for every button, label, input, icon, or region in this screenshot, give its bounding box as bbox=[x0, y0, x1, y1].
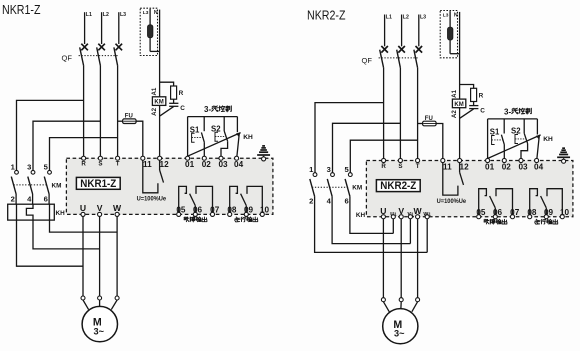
svg-text:L3: L3 bbox=[120, 12, 126, 18]
wire V to motor bbox=[400, 219, 402, 298]
svg-text:09: 09 bbox=[544, 208, 554, 217]
wire fuse to N line bbox=[150, 50, 160, 52]
svg-text:6: 6 bbox=[44, 194, 48, 203]
wire fuse to N line bbox=[450, 53, 460, 55]
thermal contact KH (control) bbox=[236, 117, 238, 133]
svg-text:04: 04 bbox=[234, 160, 244, 169]
label fault output bbox=[184, 217, 189, 222]
wire KM coil A2 to terminal 12 bbox=[159, 105, 161, 158]
terminal 07 bbox=[510, 215, 514, 219]
svg-text:10: 10 bbox=[560, 208, 570, 217]
svg-text:A2: A2 bbox=[451, 110, 458, 118]
svg-text:KM: KM bbox=[154, 100, 163, 106]
terminal PE bbox=[262, 157, 266, 161]
relay label box NKR1-Z bbox=[76, 177, 120, 189]
wire QF pole 2 to terminal S bbox=[99, 66, 101, 159]
svg-text:FU: FU bbox=[125, 114, 133, 120]
svg-text:V: V bbox=[398, 206, 404, 216]
terminal W bbox=[115, 212, 119, 216]
svg-text:06: 06 bbox=[493, 208, 503, 217]
wire C to A2 node bbox=[160, 107, 174, 116]
svg-text:L1: L1 bbox=[86, 12, 92, 18]
wire control to KM coil A1 bbox=[159, 51, 161, 96]
terminal 01 bbox=[186, 156, 190, 160]
svg-text:FU: FU bbox=[425, 116, 433, 122]
circuit breaker QF (panel 2) bbox=[362, 46, 423, 68]
wire branch phase 2 to KM pole bbox=[333, 123, 401, 172]
svg-text:u1: u1 bbox=[390, 211, 397, 218]
svg-text:3: 3 bbox=[327, 165, 331, 174]
wire RC branch bbox=[160, 82, 174, 86]
terminal PE bbox=[562, 159, 566, 163]
terminal 06 bbox=[193, 212, 197, 216]
svg-text:R: R bbox=[179, 90, 184, 97]
terminal 08 bbox=[528, 215, 532, 219]
resistor R bbox=[471, 88, 477, 101]
svg-text:01: 01 bbox=[185, 160, 195, 169]
wire control to KM coil A1 bbox=[459, 54, 461, 99]
relay unit NKR2-Z (dashed enclosure) bbox=[366, 161, 573, 217]
svg-text:3-: 3- bbox=[504, 107, 511, 116]
terminal 08 bbox=[228, 212, 232, 216]
wire KM pole to v1 bbox=[332, 196, 410, 243]
svg-text:06: 06 bbox=[193, 206, 203, 215]
terminal R bbox=[382, 158, 386, 162]
svg-text:U: U bbox=[80, 203, 86, 213]
label fault output bbox=[484, 219, 489, 224]
svg-text:L3: L3 bbox=[143, 10, 149, 16]
svg-text:R: R bbox=[479, 93, 484, 100]
svg-text:3~: 3~ bbox=[94, 326, 105, 336]
wire W to motor bbox=[116, 217, 118, 296]
terminal 04 bbox=[535, 158, 539, 162]
svg-text:10: 10 bbox=[260, 206, 270, 215]
terminal 09 bbox=[544, 215, 548, 219]
svg-text:L3: L3 bbox=[420, 15, 426, 21]
terminal V bbox=[399, 215, 403, 219]
terminal U bbox=[81, 212, 85, 216]
terminal R bbox=[82, 156, 86, 160]
svg-text:S: S bbox=[98, 161, 102, 168]
capacitor C bbox=[169, 102, 178, 104]
svg-text:03: 03 bbox=[218, 160, 228, 169]
resistor R bbox=[171, 86, 177, 99]
svg-text:w1: w1 bbox=[422, 211, 431, 218]
wire V to motor bbox=[99, 217, 101, 296]
wire branch phase 3 to KM pole bbox=[350, 140, 417, 172]
svg-text:L2: L2 bbox=[103, 12, 109, 18]
svg-text:N: N bbox=[454, 12, 458, 18]
terminal S bbox=[98, 156, 102, 160]
svg-text:U=100%Ue: U=100%Ue bbox=[437, 198, 467, 205]
svg-text:12: 12 bbox=[460, 163, 470, 172]
wire control bus bbox=[488, 118, 538, 120]
contactor coil KM (panel 1) bbox=[152, 97, 165, 106]
label run output bbox=[235, 217, 240, 222]
svg-text:C: C bbox=[480, 108, 485, 115]
svg-text:KH: KH bbox=[543, 136, 553, 143]
terminal 01 bbox=[486, 158, 490, 162]
svg-text:L3: L3 bbox=[443, 13, 449, 19]
terminal 03 bbox=[519, 158, 523, 162]
undervoltage contact U=100%Ue bbox=[443, 163, 458, 195]
phase line L2 (panel 2) bbox=[401, 15, 403, 47]
wire bus to terminal 01 bbox=[487, 119, 489, 161]
svg-text:A2: A2 bbox=[151, 107, 158, 115]
wire U to motor bbox=[82, 217, 84, 296]
svg-text:A1: A1 bbox=[451, 89, 458, 97]
control supply option box (dashed) bbox=[440, 11, 457, 58]
svg-text:08: 08 bbox=[527, 208, 537, 217]
svg-text:v1: v1 bbox=[407, 211, 414, 218]
motor M 3~ (panel 1) bbox=[82, 306, 117, 341]
wire KM coil A2 to terminal 12 bbox=[459, 108, 461, 161]
relay unit NKR1-Z (dashed enclosure) bbox=[66, 158, 273, 214]
svg-text:R: R bbox=[381, 163, 386, 170]
terminal 11 bbox=[141, 156, 145, 160]
wire N line bbox=[459, 12, 461, 54]
terminal T bbox=[416, 158, 420, 162]
wire W to motor bbox=[417, 219, 419, 298]
wire branch phase 2 to KM pole bbox=[33, 121, 100, 170]
svg-text:3: 3 bbox=[27, 163, 31, 172]
terminal 03 bbox=[219, 156, 223, 160]
wire branch phase 3 to KM pole bbox=[50, 138, 118, 171]
ground (protective earth) bbox=[557, 148, 570, 159]
wire FU to terminal 11 bbox=[136, 121, 143, 158]
svg-text:07: 07 bbox=[510, 208, 520, 217]
wire FU to terminal 11 bbox=[436, 124, 443, 161]
wire U to motor bbox=[382, 219, 384, 298]
svg-text:T: T bbox=[116, 161, 120, 168]
svg-text:09: 09 bbox=[244, 206, 254, 215]
terminal v1 bbox=[408, 215, 412, 219]
undervoltage contact U=100%Ue bbox=[143, 160, 158, 192]
terminal 02 bbox=[502, 158, 506, 162]
wire KM pole 2 to KH bbox=[15, 194, 17, 204]
fuse FU bbox=[123, 119, 137, 124]
wire KM pole to w1 bbox=[315, 196, 428, 252]
wire RC branch bbox=[460, 85, 474, 89]
wire v1 drop bbox=[409, 219, 411, 244]
terminal 04 bbox=[235, 156, 239, 160]
motor terminal V bbox=[399, 298, 403, 302]
svg-text:S: S bbox=[398, 163, 402, 170]
svg-text:01: 01 bbox=[485, 163, 495, 172]
svg-text:NKR1-Z: NKR1-Z bbox=[2, 2, 41, 17]
terminal 12 bbox=[158, 156, 162, 160]
svg-text:3-: 3- bbox=[204, 105, 211, 114]
terminal w1 bbox=[425, 215, 429, 219]
wire KM pole 4 to KH bbox=[32, 194, 34, 204]
terminal 06 bbox=[493, 215, 497, 219]
motor terminal U bbox=[81, 296, 85, 300]
terminal 05 bbox=[477, 215, 481, 219]
thermal overload relay KH bbox=[8, 204, 65, 220]
terminal S bbox=[398, 158, 402, 162]
svg-text:11: 11 bbox=[443, 163, 452, 172]
svg-text:V: V bbox=[97, 203, 103, 213]
svg-text:T: T bbox=[416, 163, 420, 170]
svg-text:KH: KH bbox=[243, 134, 253, 141]
wire C to A2 node bbox=[460, 109, 474, 118]
wire QF pole 3 to terminal T bbox=[117, 66, 119, 159]
control fuse (in dashed box) bbox=[449, 11, 451, 54]
wire QF pole 2 to terminal S bbox=[399, 68, 401, 161]
svg-text:11: 11 bbox=[143, 160, 152, 169]
fault output contact (05/06/07) bbox=[179, 186, 213, 212]
terminal 10 bbox=[560, 215, 564, 219]
svg-text:W: W bbox=[414, 206, 423, 216]
fault output contact (05/06/07) bbox=[479, 189, 513, 215]
ground (protective earth) bbox=[257, 146, 270, 157]
svg-text:02: 02 bbox=[502, 163, 512, 172]
svg-text:12: 12 bbox=[160, 160, 170, 169]
wire N line bbox=[159, 10, 161, 52]
terminal 09 bbox=[244, 212, 248, 216]
wire R to C bbox=[173, 99, 175, 103]
wire KH pole 4 to V line bbox=[33, 220, 100, 249]
phase line L1 (panel 2) bbox=[384, 15, 386, 47]
motor terminal U bbox=[381, 298, 385, 302]
wire w1 drop bbox=[426, 219, 428, 253]
terminal 12 bbox=[458, 158, 462, 162]
terminal 02 bbox=[202, 156, 206, 160]
terminal 11 bbox=[441, 158, 445, 162]
contactor KM main contacts (panel 1) bbox=[11, 163, 62, 204]
svg-text:NKR2-Z: NKR2-Z bbox=[380, 180, 416, 192]
wire QF pole 1 to terminal R bbox=[383, 68, 385, 161]
fuse FU bbox=[423, 121, 437, 126]
svg-text:KH: KH bbox=[56, 210, 66, 217]
svg-text:2: 2 bbox=[11, 194, 15, 203]
wire motor leads bbox=[383, 302, 389, 312]
svg-text:U: U bbox=[380, 206, 386, 216]
terminal 07 bbox=[210, 212, 214, 216]
svg-text:N: N bbox=[154, 10, 158, 16]
svg-text:KM: KM bbox=[52, 182, 62, 189]
capacitor C bbox=[469, 105, 478, 107]
svg-text:C: C bbox=[180, 105, 185, 112]
circuit breaker QF (panel 1) bbox=[62, 44, 123, 66]
wire KH pole 6 to W line bbox=[50, 220, 118, 232]
wire KM pole 6 to KH bbox=[48, 194, 50, 204]
contactor KM main contacts (panel 2) bbox=[309, 165, 362, 206]
wire branch phase 1 to KM pole bbox=[315, 103, 384, 173]
wire T phase to FU bbox=[418, 123, 423, 125]
motor terminal W bbox=[416, 298, 420, 302]
wire R to C bbox=[473, 102, 475, 106]
svg-text:02: 02 bbox=[202, 160, 212, 169]
contactor coil KM (panel 2) bbox=[452, 99, 465, 108]
svg-text:R: R bbox=[81, 161, 86, 168]
relay label box NKR2-Z bbox=[376, 180, 420, 192]
svg-text:07: 07 bbox=[210, 206, 220, 215]
terminal u1 bbox=[391, 215, 395, 219]
svg-text:2: 2 bbox=[309, 197, 313, 206]
terminal W bbox=[416, 215, 420, 219]
phase line L3 (panel 1) bbox=[118, 12, 120, 44]
svg-text:04: 04 bbox=[534, 163, 544, 172]
svg-text:U=100%Ue: U=100%Ue bbox=[137, 196, 167, 203]
wire branch phase 1 to KM pole bbox=[17, 100, 84, 170]
svg-text:A1: A1 bbox=[151, 87, 158, 95]
wire T phase to FU bbox=[118, 120, 123, 122]
phase line L3 (panel 2) bbox=[418, 15, 420, 47]
run output contact (08/09/10) bbox=[230, 186, 263, 212]
motor terminal W bbox=[115, 296, 119, 300]
svg-text:L2: L2 bbox=[403, 15, 409, 21]
wire QF pole 1 to terminal R bbox=[83, 66, 85, 159]
wire KH pole 2 to U line bbox=[17, 220, 84, 266]
wire motor leads bbox=[83, 300, 89, 310]
wire bus to terminal 01 bbox=[187, 117, 189, 159]
wire QF pole 3 to terminal T bbox=[417, 68, 419, 161]
phase line L1 (panel 1) bbox=[84, 12, 86, 44]
wire control bus bbox=[188, 116, 238, 118]
thermal contact KH (control) bbox=[536, 119, 538, 135]
phase line L2 (panel 1) bbox=[101, 12, 103, 44]
svg-text:W: W bbox=[113, 203, 122, 213]
svg-text:3~: 3~ bbox=[394, 328, 405, 338]
terminal 05 bbox=[177, 212, 181, 216]
terminal V bbox=[98, 212, 102, 216]
svg-text:QF: QF bbox=[362, 56, 373, 65]
svg-text:03: 03 bbox=[518, 163, 528, 172]
run output contact (08/09/10) bbox=[530, 189, 563, 215]
wire u1 drop bbox=[392, 219, 394, 234]
control fuse (in dashed box) bbox=[149, 9, 151, 52]
svg-text:NKR1-Z: NKR1-Z bbox=[80, 178, 116, 190]
svg-text:05: 05 bbox=[176, 206, 186, 215]
terminal U bbox=[381, 215, 385, 219]
terminal T bbox=[116, 156, 120, 160]
svg-text:NKR2-Z: NKR2-Z bbox=[307, 8, 346, 23]
wire KM pole to u1 bbox=[350, 196, 393, 233]
terminal 10 bbox=[260, 212, 264, 216]
svg-text:KH: KH bbox=[356, 212, 366, 219]
svg-text:6: 6 bbox=[344, 197, 348, 206]
label run output bbox=[535, 219, 540, 224]
motor terminal V bbox=[98, 296, 102, 300]
svg-text:05: 05 bbox=[476, 208, 486, 217]
svg-text:QF: QF bbox=[62, 54, 73, 63]
motor M 3~ (panel 2) bbox=[383, 309, 418, 344]
svg-text:L1: L1 bbox=[386, 15, 392, 21]
control supply option box (dashed) bbox=[140, 8, 157, 55]
svg-text:KM: KM bbox=[454, 102, 463, 108]
svg-text:08: 08 bbox=[227, 206, 237, 215]
svg-text:KM: KM bbox=[352, 185, 362, 192]
